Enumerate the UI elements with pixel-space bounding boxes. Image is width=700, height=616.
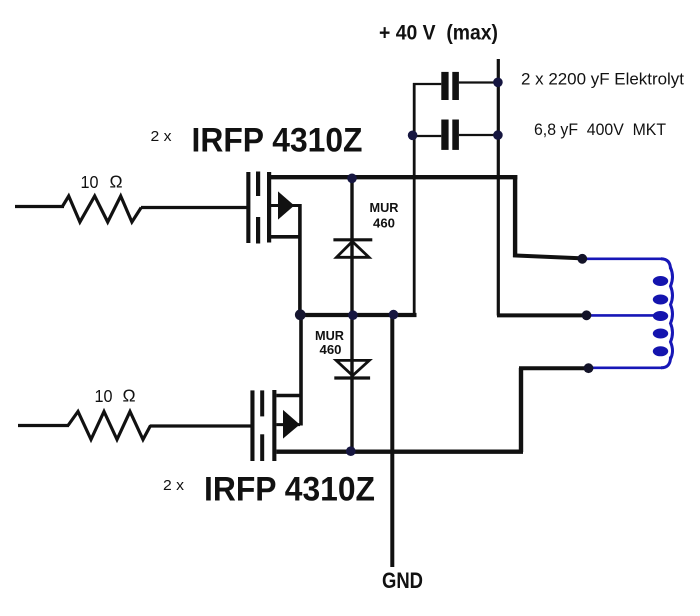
svg-text:IRFP 4310Z: IRFP 4310Z: [192, 121, 363, 159]
wire: lower gate lead (left of R2): [18, 424, 69, 427]
wire: right vertical from drain rail down to coil top: [513, 175, 517, 257]
junction: bottom rail / D2 cathode: [346, 446, 356, 456]
wire: capacitor left bus down to middle rail: [413, 83, 416, 315]
svg-text:IRFP 4310Z: IRFP 4310Z: [204, 471, 375, 509]
wire: upper gate lead (left of R1): [15, 205, 64, 208]
junction: middle rail / Q1 source / Q2 drain: [295, 309, 306, 320]
wire: GND lead: [390, 314, 394, 567]
junction: middle rail / GND lead: [389, 310, 399, 320]
svg-text:2 x: 2 x: [163, 477, 185, 494]
junction: drain rail / D1 cathode: [347, 174, 357, 184]
wire: upper gate lead (right of R1, to Q1 gate): [141, 206, 247, 209]
svg-text:+ 40 V (max): + 40 V (max): [379, 22, 498, 45]
svg-text:2 x: 2 x: [151, 128, 173, 145]
inductor L1 work coil (blue): [582, 259, 673, 368]
svg-text:Ω: Ω: [110, 172, 123, 192]
power: +40V supply lead: [497, 59, 500, 316]
junction: +40V / C1 right: [493, 78, 503, 88]
node: coil bottom tap: [584, 363, 594, 373]
junction: +40V / C2 right: [493, 130, 503, 140]
label: D1 MUR 460: [370, 200, 400, 231]
wire: bottom coil tap: [519, 366, 589, 370]
svg-text:6,8 yF 400V MKT: 6,8 yF 400V MKT: [534, 121, 666, 139]
diode D1 MUR460 (upper freewheel diode): [333, 178, 372, 315]
label: R2 value 10 Ω: [95, 386, 136, 407]
wire: top drain rail: [267, 175, 517, 179]
resistor R2 10 Ohm (lower gate resistor): [68, 412, 151, 440]
svg-text:460: 460: [320, 342, 342, 357]
node: coil top tap: [577, 254, 587, 264]
label: R1 value 10 Ω: [81, 172, 123, 193]
svg-text:2 x 2200 yF Elektrolyt: 2 x 2200 yF Elektrolyt: [521, 71, 685, 89]
diode D2 MUR460 (lower freewheel diode): [334, 315, 370, 451]
svg-text:Ω: Ω: [123, 386, 136, 406]
wire: middle rail (Q1 source / Q2 drain): [299, 313, 417, 317]
wire: middle coil tap (+40V to coil centre): [497, 313, 587, 317]
capacitor C2 (6,8 yF 400V MKT): [414, 120, 498, 150]
svg-text:10: 10: [81, 172, 99, 192]
svg-text:460: 460: [373, 216, 395, 231]
capacitor C1 (2 x 2200 yF Elektrolyt): [413, 72, 498, 100]
transistor Q1 IRFP 4310Z (upper MOSFET): [246, 172, 300, 316]
wire: lower gate lead (right of R2, to Q2 gate): [150, 424, 251, 427]
junction: cap left bus / C2 left: [408, 131, 418, 141]
resistor R1 10 Ohm (upper gate resistor): [62, 196, 141, 222]
svg-text:MUR: MUR: [370, 200, 400, 215]
wire: bottom source rail: [276, 450, 523, 454]
svg-text:GND: GND: [382, 568, 423, 593]
junction: middle rail / D1 anode: [348, 310, 358, 320]
wire: bottom corner vertical (rail up to coil bottom): [519, 368, 523, 452]
label: D2 MUR 460: [315, 328, 345, 357]
transistor Q2 IRFP 4310Z (lower MOSFET): [250, 314, 302, 461]
svg-text:10: 10: [95, 386, 113, 406]
node: coil middle tap: [582, 310, 592, 320]
svg-text:MUR: MUR: [315, 328, 345, 343]
wire: top coil tap: [513, 255, 583, 258]
